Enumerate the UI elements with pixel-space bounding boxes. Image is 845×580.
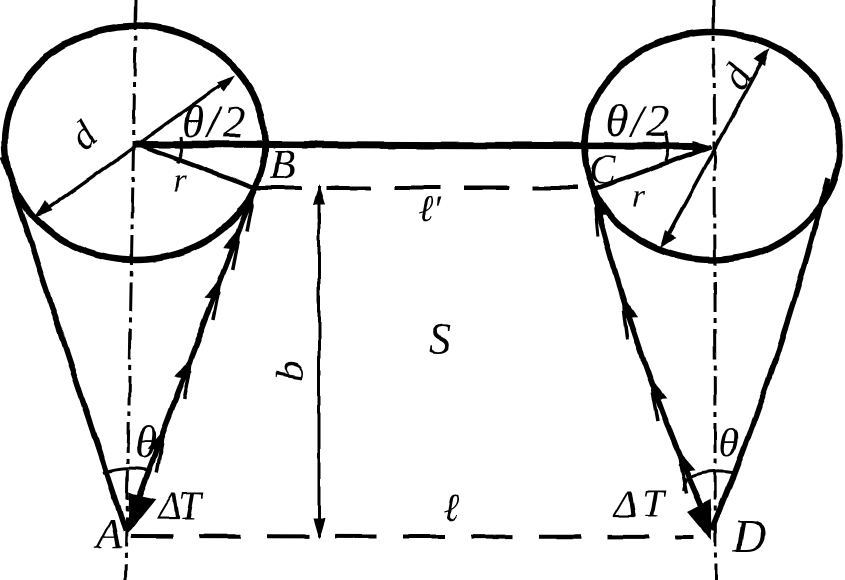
belt arrow 4 left	[141, 425, 172, 472]
belt arrow near C	[586, 190, 614, 237]
svg-text:ΔT: ΔT	[156, 483, 204, 528]
angle arc theta/2 left	[178, 137, 182, 163]
force arrow Delta-T at D (down along belt)	[686, 499, 725, 546]
svg-text:A: A	[93, 511, 123, 558]
svg-text:S: S	[429, 316, 451, 363]
svg-text:C: C	[589, 146, 617, 192]
dimension line b (vertical)	[318, 186, 321, 537]
belt arrow 2 left	[198, 273, 229, 320]
center-to-center line	[135, 144, 700, 146]
center line right pulley (vertical dash-dot)	[714, 0, 716, 580]
svg-text:θ/2: θ/2	[182, 97, 245, 147]
belt line outer right	[712, 178, 828, 530]
diameter arrow left pulley	[40, 79, 229, 214]
pulley circle right	[584, 32, 840, 260]
angle arc theta at D	[686, 471, 735, 478]
belt arrow 3 left	[168, 352, 199, 399]
svg-text:b: b	[267, 361, 312, 381]
belt line outer left	[3, 157, 126, 531]
radius line right (to C)	[593, 146, 712, 190]
belt line inner left (A to B) with arrows	[126, 188, 255, 531]
angle arc theta/2 right	[665, 131, 667, 161]
center line left pulley (vertical dash-dot)	[126, 0, 136, 580]
radius line left (to B)	[135, 143, 255, 188]
belt arrow 3 right	[670, 446, 702, 493]
dimension line l (dashed bottom, A to D)	[131, 536, 693, 537]
svg-text:θ/2: θ/2	[606, 96, 669, 146]
belt arrow 2 right	[642, 374, 673, 421]
force arrow Delta-T at A (down along belt)	[116, 489, 156, 538]
belt arrow near B	[231, 185, 262, 232]
tick at theta arc D	[683, 478, 686, 490]
svg-text:θ: θ	[719, 420, 739, 465]
belt arrow 1 right	[614, 292, 643, 339]
svg-text:θ: θ	[135, 418, 157, 467]
svg-text:B: B	[270, 143, 296, 189]
pulley circle left	[5, 26, 265, 260]
belt line inner right (D to C) with arrows	[593, 190, 711, 529]
svg-text:r: r	[173, 162, 187, 199]
svg-text:D: D	[732, 510, 766, 561]
arrowhead at right pulley center	[692, 141, 714, 152]
svg-text:ℓ′: ℓ′	[418, 189, 442, 230]
dimension line l-prime (dashed, B to C)	[257, 186, 592, 190]
svg-text:r: r	[632, 177, 645, 213]
diameter arrow right pulley	[664, 54, 766, 242]
belt arrow 1 left	[217, 223, 248, 270]
angle arc theta at A	[103, 468, 148, 473]
svg-text:ℓ: ℓ	[443, 486, 460, 529]
